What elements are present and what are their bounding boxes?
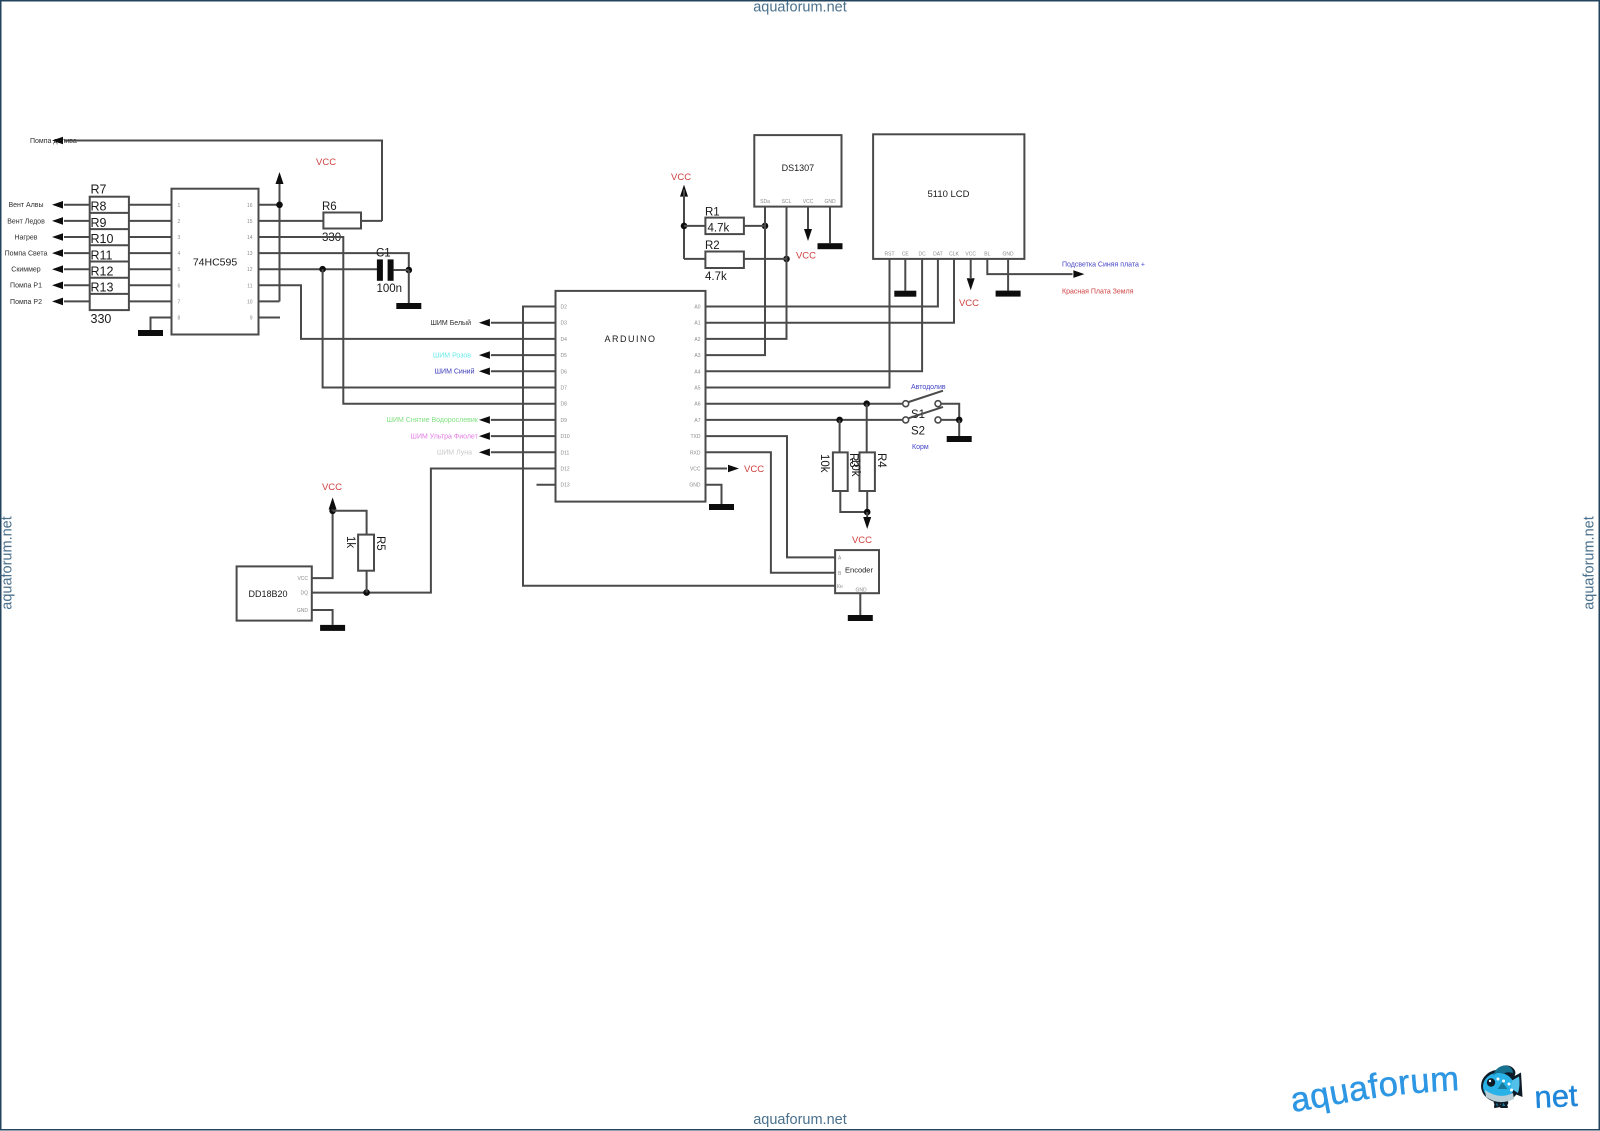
wire R-array row 4 to 74HC595 pin 4 — [129, 252, 172, 254]
svg-text:SDa: SDa — [760, 199, 770, 205]
power arrow VCC 74HC595 — [276, 172, 284, 184]
svg-text:SCL: SCL — [782, 199, 792, 205]
svg-text:5110 LCD: 5110 LCD — [927, 189, 969, 200]
wire output Вент Алвы — [64, 204, 90, 206]
ground under 74HC595 — [138, 330, 163, 336]
node SDA-R1 junction — [762, 223, 769, 230]
svg-text:A6: A6 — [694, 402, 700, 408]
svg-text:VCC: VCC — [671, 172, 691, 183]
svg-text:D11: D11 — [561, 450, 570, 456]
svg-text:GND: GND — [1003, 252, 1015, 258]
wire DS1307 VCC pin — [807, 207, 809, 229]
svg-text:RXD: RXD — [690, 450, 701, 456]
svg-text:GND: GND — [297, 608, 309, 614]
svg-text:R4: R4 — [875, 453, 887, 468]
svg-text:Корм: Корм — [912, 444, 929, 451]
ground under LCD GND — [996, 291, 1021, 297]
arrowhead ШИМ Белый — [479, 319, 490, 327]
svg-text:Помпа Света: Помпа Света — [5, 251, 48, 258]
svg-text:A2: A2 — [694, 337, 700, 343]
wire Arduino VCC pin — [706, 468, 728, 470]
wire Arduino D13 stub — [537, 484, 556, 486]
svg-text:Encoder: Encoder — [845, 566, 873, 575]
svg-text:A5: A5 — [694, 386, 700, 392]
wire 74HC595 pin12 to C1 left plate — [259, 268, 378, 270]
svg-text:D2: D2 — [561, 305, 568, 311]
wire DS1307 SDA drop — [764, 207, 766, 356]
svg-text:aquaforum.net: aquaforum.net — [0, 516, 16, 610]
svg-text:16: 16 — [247, 203, 253, 209]
wire LCD GND pin — [1007, 259, 1009, 291]
svg-text:ШИМ Луна: ШИМ Луна — [437, 450, 472, 457]
wire DS1307 SCL drop — [786, 207, 788, 339]
resistor R4 10k — [849, 404, 887, 512]
svg-text:A3: A3 — [694, 353, 700, 359]
svg-text:BL: BL — [984, 252, 990, 258]
wire output Вент Ледов — [64, 220, 90, 222]
svg-text:10k: 10k — [818, 454, 830, 473]
resistor R6 330 — [259, 201, 383, 244]
svg-text:Подсветка Синяя плата +: Подсветка Синяя плата + — [1062, 262, 1145, 269]
arrowhead Помпа долива — [52, 137, 63, 145]
svg-text:Красная Плата Земля: Красная Плата Земля — [1062, 289, 1134, 296]
arrowhead Нагрев — [52, 233, 63, 241]
svg-text:DS1307: DS1307 — [782, 163, 815, 173]
wire VCC rail stub — [332, 503, 334, 511]
svg-text:aquaforum.net: aquaforum.net — [753, 0, 847, 16]
wire output Помпа Р1 — [64, 284, 90, 286]
ground under switches — [947, 436, 972, 442]
aquaforum logo text — [1288, 1060, 1461, 1120]
svg-text:GND: GND — [824, 199, 836, 205]
svg-text:aquaforum.net: aquaforum.net — [1582, 516, 1598, 610]
svg-text:A4: A4 — [694, 369, 700, 375]
node DQ-R5 junction — [363, 589, 370, 596]
wire Arduino A7 to switch S2 — [706, 419, 903, 421]
resistor R3 10k — [818, 420, 867, 512]
resistor R1 4.7k — [684, 207, 765, 235]
node switch common junction — [956, 417, 963, 424]
arrowhead backlight — [1073, 270, 1084, 278]
svg-text:ШИМ Снятие Водорослевик: ШИМ Снятие Водорослевик — [387, 417, 479, 424]
IC U6 DD18B20 temperature sensor — [237, 566, 312, 620]
svg-text:DD18B20: DD18B20 — [248, 589, 287, 599]
svg-text:R6: R6 — [322, 201, 337, 213]
capacitor C1 100n — [376, 248, 409, 296]
svg-text:9: 9 — [250, 316, 253, 322]
node SCL-R2 junction — [783, 256, 790, 263]
wire Arduino A4 to LCD DC — [706, 259, 923, 371]
wire Arduino D6 PWM ШИМ Синий — [491, 370, 556, 372]
wire LCD VCC pin — [970, 259, 972, 278]
wire Arduino D10 PWM ШИМ Ультра Фиолет — [491, 435, 556, 437]
arrowhead ШИМ Ультра Фиолет — [479, 432, 490, 440]
encoder U5 — [835, 550, 879, 593]
wire Arduino GND pin to ground — [706, 485, 722, 504]
arrowhead Помпа Р1 — [52, 282, 63, 290]
wire Arduino TXD to Encoder A — [706, 436, 836, 557]
svg-text:15: 15 — [247, 219, 253, 225]
IC U3 DS1307 — [754, 135, 841, 207]
ground under C1 — [396, 303, 421, 309]
wire output Помпа Света — [64, 252, 90, 254]
svg-text:Скиммер: Скиммер — [11, 267, 41, 274]
svg-text:74HC595: 74HC595 — [193, 257, 238, 269]
wire R-array row 5 to 74HC595 pin 5 — [129, 268, 172, 270]
ground under DD18B20 — [320, 625, 345, 631]
svg-text:Вент Алвы: Вент Алвы — [8, 202, 43, 209]
svg-text:7: 7 — [178, 299, 181, 305]
arrowhead ШИМ Розов — [479, 351, 490, 359]
resistor R2 4.7k — [684, 240, 787, 283]
svg-text:Помпа Р1: Помпа Р1 — [10, 283, 42, 290]
node A7-R3 junction — [836, 417, 843, 424]
svg-text:Вент Ледов: Вент Ледов — [7, 218, 45, 225]
svg-text:DC: DC — [918, 252, 926, 258]
wire R-array row 1 to 74HC595 pin 1 — [129, 204, 172, 206]
svg-text:VCC: VCC — [852, 535, 872, 546]
power arrow VCC DS1307 — [804, 229, 812, 241]
node pin16-VCC junction — [276, 202, 283, 209]
wire 74HC595 pin11 to Arduino D4 — [259, 285, 556, 339]
svg-text:Нагрев: Нагрев — [14, 234, 37, 241]
svg-text:5: 5 — [178, 267, 181, 273]
svg-text:R9: R9 — [91, 216, 107, 230]
switch S2 Корм — [903, 407, 943, 451]
svg-text:330: 330 — [91, 312, 112, 326]
svg-text:4: 4 — [178, 251, 181, 257]
svg-text:R12: R12 — [91, 265, 114, 279]
svg-text:ШИМ Белый: ШИМ Белый — [430, 319, 471, 327]
wire Arduino D11 PWM ШИМ Луна — [491, 451, 556, 453]
svg-text:10: 10 — [247, 299, 253, 305]
svg-text:VCC: VCC — [959, 298, 979, 309]
power arrow VCC LCD — [967, 278, 975, 290]
wire Arduino A2 to DS1307 SCL — [706, 207, 787, 339]
wire pin12 net to Arduino D7 — [323, 269, 556, 387]
svg-text:D8: D8 — [561, 402, 568, 408]
IC U2 ARDUINO — [556, 291, 706, 502]
node VCC-R5 junction — [329, 508, 336, 515]
svg-text:GND: GND — [855, 588, 867, 594]
wire 74HC595 pin13 to C1 right node — [259, 253, 409, 270]
ground under DS1307 — [818, 243, 843, 249]
wire VCC rail to R5 — [333, 511, 367, 535]
arrowhead Вент Ледов — [52, 217, 63, 225]
svg-text:VCC: VCC — [744, 464, 764, 475]
svg-text:D12: D12 — [561, 467, 570, 473]
ground under LCD CE — [894, 291, 916, 297]
wire output Нагрев — [64, 236, 90, 238]
wire LCD BL to backlight — [987, 259, 1072, 274]
svg-text:Кн: Кн — [837, 584, 843, 590]
wire C1 right node to ground — [408, 270, 410, 303]
svg-text:2: 2 — [178, 219, 181, 225]
svg-text:R10: R10 — [91, 232, 114, 246]
svg-text:D10: D10 — [561, 434, 570, 440]
arrowhead ШИМ Синий — [479, 368, 490, 376]
svg-text:R8: R8 — [91, 200, 107, 214]
ground under Arduino — [709, 504, 734, 510]
svg-text:14: 14 — [247, 235, 253, 241]
wire DD18B20 VCC to rail — [312, 511, 333, 578]
wire Arduino RXD to Encoder B — [706, 452, 836, 573]
wire 74HC595 pin8 to ground — [151, 318, 172, 331]
wire Arduino D2 to Encoder button pin — [523, 307, 835, 586]
svg-text:S2: S2 — [911, 426, 925, 438]
svg-text:6: 6 — [178, 283, 181, 289]
resistor network R7 (array 330) — [90, 183, 129, 327]
svg-text:3: 3 — [178, 235, 181, 241]
wire pin16 to VCC rail — [259, 204, 280, 206]
svg-text:D5: D5 — [561, 353, 568, 359]
svg-text:GND: GND — [689, 483, 701, 489]
svg-text:ШИМ Синий: ШИМ Синий — [435, 368, 475, 376]
wire Помпа долива net: top run and drop to R6 — [64, 141, 382, 221]
svg-text:10k: 10k — [849, 458, 861, 477]
svg-text:VCC: VCC — [322, 482, 342, 493]
svg-text:CE: CE — [902, 252, 910, 258]
svg-text:RST: RST — [885, 252, 895, 258]
wire Encoder GND pin — [859, 593, 861, 615]
svg-text:D7: D7 — [561, 386, 568, 392]
svg-text:8: 8 — [178, 316, 181, 322]
svg-text:Автодолив: Автодолив — [911, 384, 946, 391]
wire Arduino A0 to LCD DAT — [706, 259, 938, 307]
svg-text:VCC: VCC — [796, 251, 816, 262]
wire R-array row 2 to 74HC595 pin 2 — [129, 220, 172, 222]
arrowhead Arduino VCC — [728, 465, 739, 473]
power arrow VCC I2C — [680, 185, 688, 197]
logo fish icon — [1481, 1064, 1523, 1107]
svg-text:ШИМ Розов: ШИМ Розов — [433, 352, 471, 359]
svg-text:A7: A7 — [694, 418, 700, 424]
power arrow VCC DD18B20 — [329, 497, 337, 509]
wire pullup common to VCC — [866, 512, 868, 517]
svg-text:R11: R11 — [91, 248, 113, 262]
svg-text:net: net — [1534, 1078, 1579, 1115]
wire Arduino D3 PWM ШИМ Белый — [491, 322, 556, 324]
svg-text:D6: D6 — [561, 369, 568, 375]
IC U1 74HC595 — [172, 189, 259, 335]
wire 74HC595 pin14 to Arduino D8 — [259, 237, 556, 404]
svg-text:13: 13 — [247, 251, 253, 257]
wire VCC rail pin16 to pin10 — [279, 177, 281, 301]
wire R-array row 6 to 74HC595 pin 6 — [129, 284, 172, 286]
arrowhead Вент Алвы — [52, 201, 63, 209]
wire DS1307 GND pin — [829, 207, 831, 244]
svg-text:D13: D13 — [561, 483, 570, 489]
wire R6 to top net — [361, 220, 382, 222]
svg-text:R5: R5 — [374, 536, 386, 551]
svg-text:R2: R2 — [705, 240, 720, 252]
svg-text:TXD: TXD — [691, 434, 701, 440]
arrowhead Помпа Света — [52, 249, 63, 257]
arrowhead ШИМ Снятие Водорослевик — [479, 416, 490, 424]
svg-text:1k: 1k — [344, 536, 356, 548]
resistor R5 1k — [344, 535, 386, 593]
arrowhead Помпа Р2 — [52, 298, 63, 306]
svg-text:12: 12 — [247, 267, 253, 273]
wire switch common to ground — [958, 420, 960, 436]
arrowhead ШИМ Луна — [479, 449, 490, 457]
node pin12-D7 junction — [319, 266, 326, 273]
svg-text:A0: A0 — [694, 305, 700, 311]
wire LCD CE to ground — [904, 259, 906, 291]
svg-text:A1: A1 — [694, 321, 700, 327]
svg-text:100n: 100n — [377, 283, 403, 295]
svg-text:D3: D3 — [561, 321, 568, 327]
wire Arduino A6 to switch S1 — [706, 403, 903, 405]
wire Arduino D9 PWM ШИМ Снятие Водорослевик — [491, 419, 556, 421]
wire Arduino A5 to LCD RST — [706, 259, 890, 388]
power arrow VCC pullups — [863, 517, 871, 529]
ground under encoder — [848, 615, 873, 621]
svg-text:R7: R7 — [91, 183, 107, 197]
node C1 right junction — [406, 267, 413, 274]
wire Arduino D5 PWM ШИМ Розов — [491, 354, 556, 356]
wire Arduino A3 to DS1307 SDA — [706, 207, 766, 356]
svg-text:D4: D4 — [561, 337, 568, 343]
wire R-array row 3 to 74HC595 pin 3 — [129, 236, 172, 238]
wire Arduino D12 to DD18B20 DQ — [312, 469, 556, 593]
wire output Скиммер — [64, 268, 90, 270]
svg-text:Помпа Р2: Помпа Р2 — [10, 299, 42, 306]
svg-text:aquaforum.net: aquaforum.net — [753, 1112, 847, 1128]
IC U4 5110 LCD — [873, 134, 1024, 259]
wire VCC rail for R1/R2 — [683, 190, 685, 259]
wire S2 right to common — [941, 419, 959, 421]
svg-text:VCC: VCC — [965, 252, 976, 258]
svg-text:VCC: VCC — [316, 157, 336, 168]
wire R-array row 7 to 74HC595 pin 7 — [129, 300, 172, 302]
arrowhead Скиммер — [52, 265, 63, 273]
switch S1 Автодолив — [903, 384, 946, 421]
svg-text:4.7k: 4.7k — [705, 271, 727, 283]
wire pin15 to R6 — [259, 220, 324, 222]
svg-text:ARDUINO: ARDUINO — [604, 334, 656, 344]
svg-text:VCC: VCC — [690, 467, 701, 473]
svg-text:R13: R13 — [91, 281, 114, 295]
svg-text:ШИМ Ультра Фиолет: ШИМ Ультра Фиолет — [411, 433, 479, 440]
svg-text:1: 1 — [178, 203, 181, 209]
node VCC-R1 junction — [681, 223, 688, 230]
wire Arduino A1 to LCD CLK — [706, 259, 955, 323]
wire S1 right to common — [941, 404, 959, 420]
svg-text:DAT: DAT — [933, 252, 943, 258]
svg-text:VCC: VCC — [803, 199, 814, 205]
wire DD18B20 GND pin — [312, 610, 333, 625]
node A6-R4 junction — [863, 400, 870, 407]
svg-text:VCC: VCC — [297, 576, 308, 582]
svg-text:DQ: DQ — [301, 591, 309, 597]
svg-text:D9: D9 — [561, 418, 568, 424]
node R3-R4 bottom junction — [864, 509, 871, 516]
svg-text:C1: C1 — [376, 248, 391, 260]
svg-text:4.7k: 4.7k — [708, 223, 730, 235]
wire pin10 to VCC rail — [259, 300, 280, 302]
svg-text:11: 11 — [247, 283, 252, 289]
wire pin9 stub — [259, 317, 281, 319]
wire output Помпа Р2 — [64, 300, 90, 302]
svg-text:CLK: CLK — [949, 252, 959, 258]
